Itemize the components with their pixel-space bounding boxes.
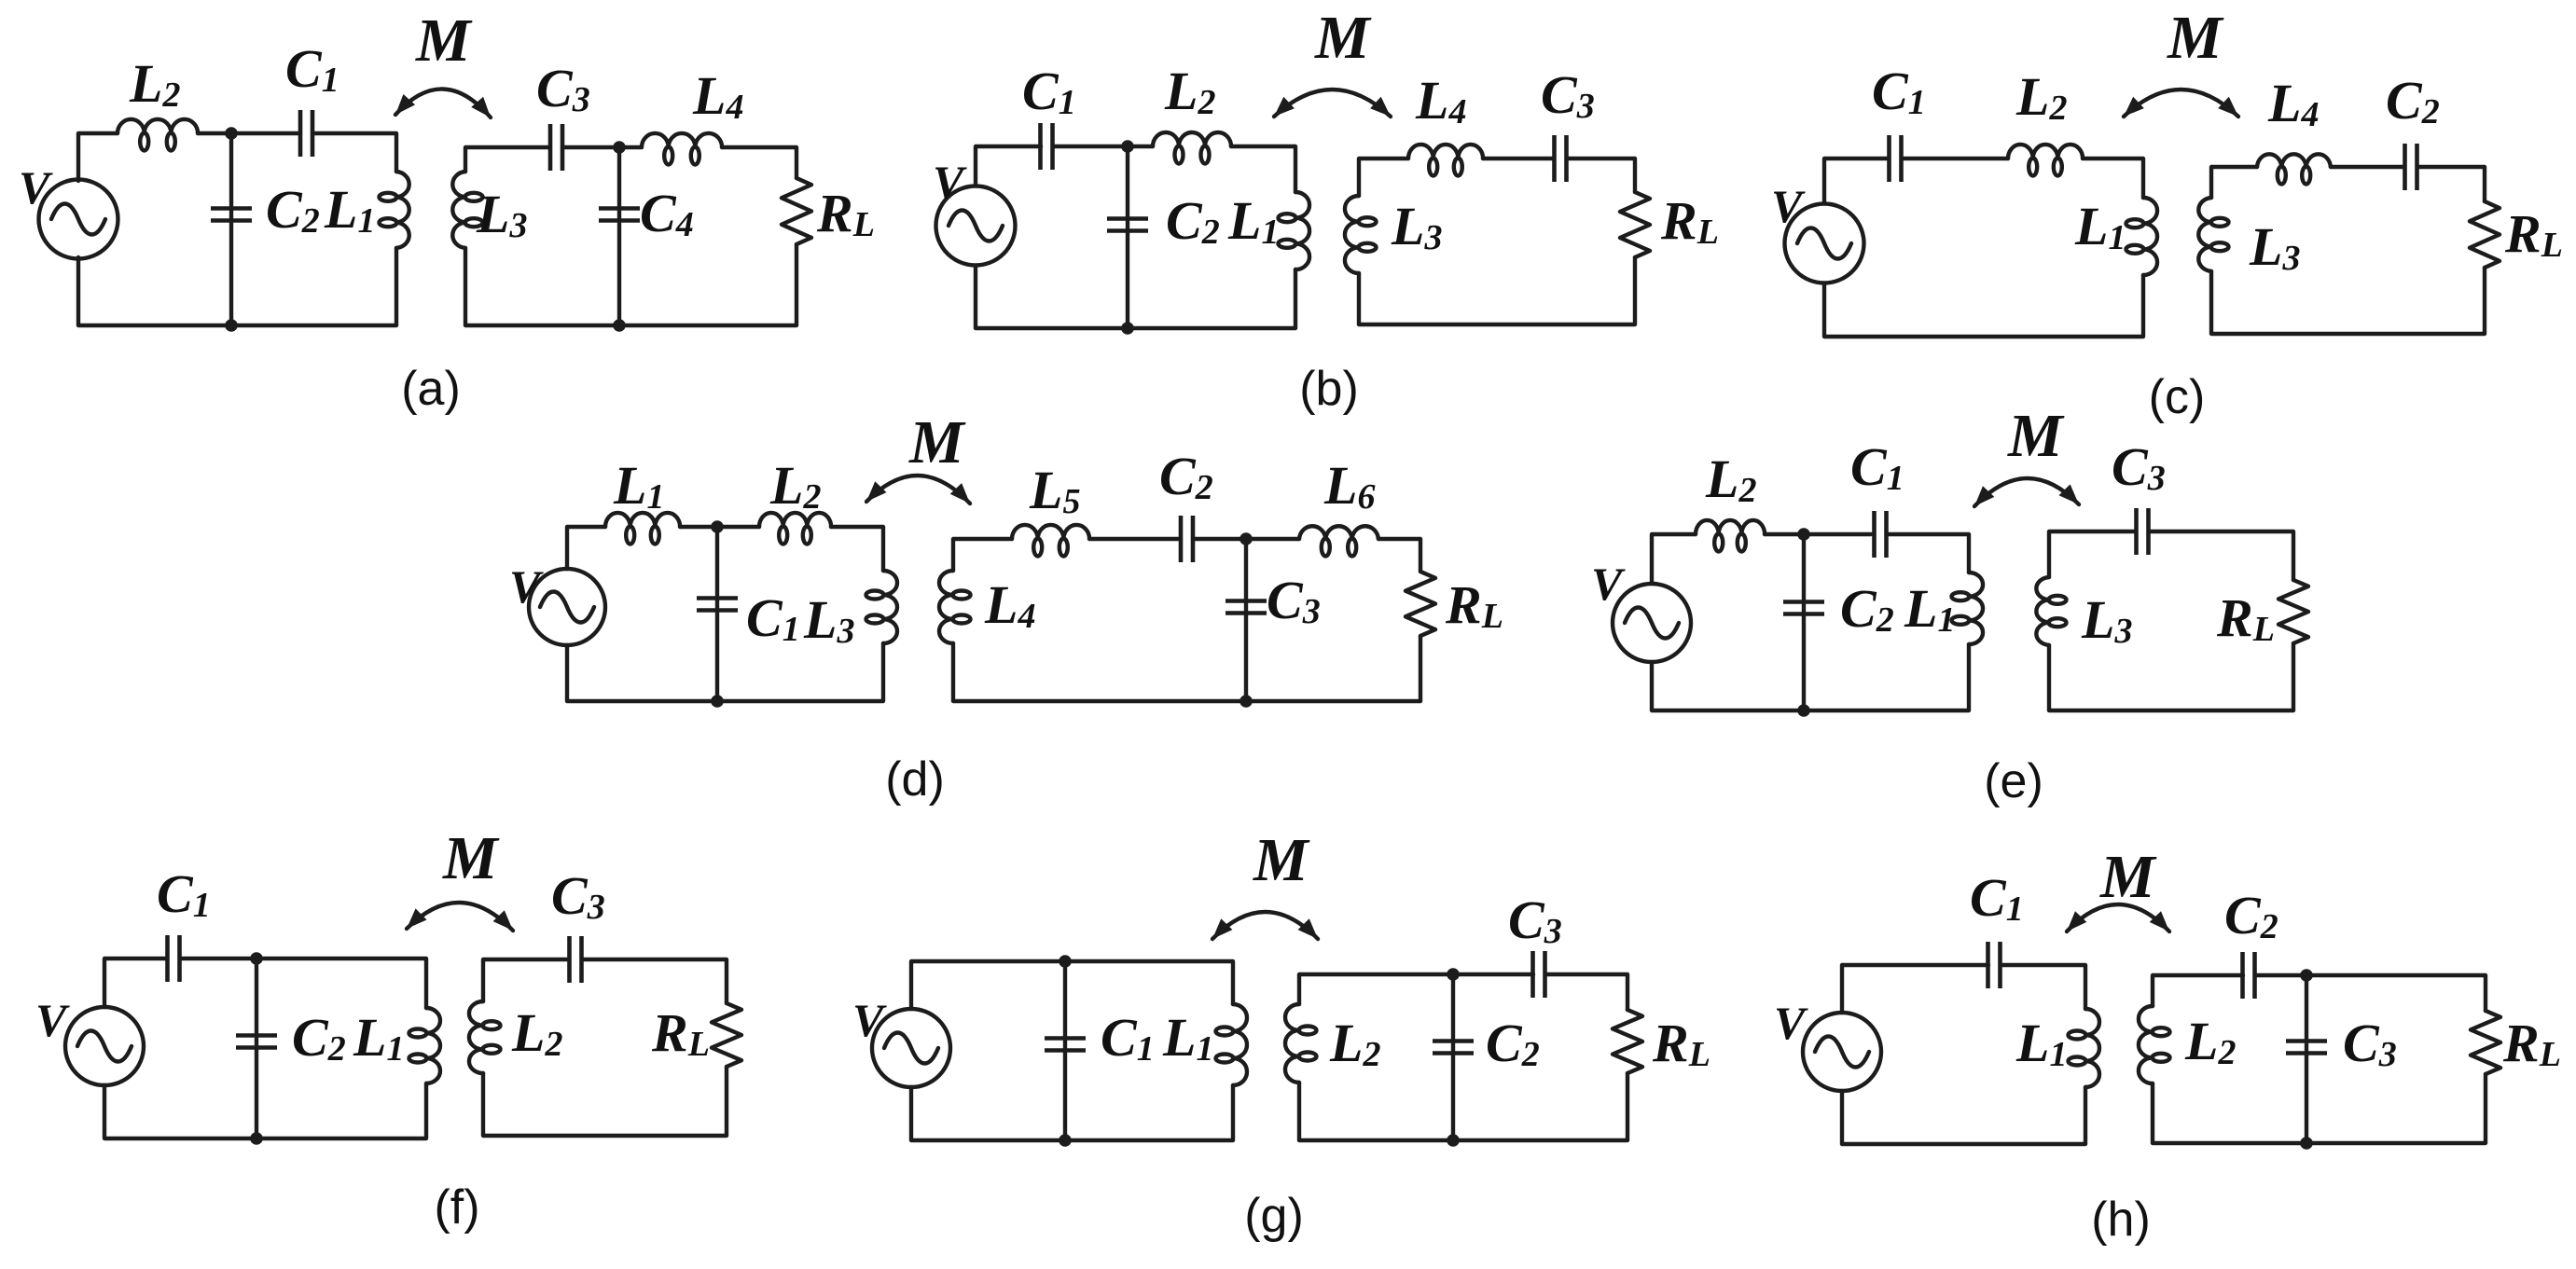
capacitor C1 (e) [1875,511,1887,558]
svg-text:C2: C2 [2224,885,2278,946]
wire (e) bottom loop1 [1652,644,1969,710]
wire (h) C1 to corner [2001,965,2085,1009]
svg-text:L1: L1 [613,455,664,517]
resistor RL (a) [782,178,811,244]
svg-text:C1: C1 [1101,1007,1155,1069]
svg-text:C1: C1 [1022,61,1076,122]
svg-text:M: M [1253,826,1310,894]
capacitor C1 (c) [1890,135,1902,182]
wire (b) C2 branch [1126,146,1129,328]
wire (f) C3 to RL [582,959,727,1003]
node (a) n2 [613,141,626,154]
wire (h) C2 to node2 [2255,975,2486,1011]
wire (a) sec top left [465,147,550,172]
inductor L4 (c) [2257,154,2331,184]
mutual coupling M arrow (f) [401,903,519,936]
mutual coupling M arrow (g) [1207,912,1323,945]
svg-text:M: M [415,7,473,75]
inductor L2 (h) [2139,1006,2170,1083]
inductor L3 (a) [452,172,482,248]
capacitor C3 (f) [570,936,582,983]
AC source V (b) [936,186,1016,266]
AC source V (h) [1803,1013,1881,1091]
capacitor C2 (g) [1433,1041,1474,1054]
node (d) n1 bottom [711,695,724,708]
inductor L1 (g) [1216,1004,1248,1085]
capacitor C2 (b) [1107,219,1148,231]
wire (g) C3 to RL [1545,974,1627,1010]
node (g) n1 bottom [1059,1134,1072,1147]
mutual coupling M arrow (h) [2061,904,2175,937]
svg-text:L2: L2 [769,455,821,517]
svg-text:(d): (d) [885,752,945,807]
wire (g) C1 branch [1063,961,1067,1140]
resistor RL (e) [2278,580,2308,643]
inductor L3 (b) [1345,196,1377,273]
inductor L4 (d) [939,571,971,643]
wire (g) bottom loop2 [1299,1073,1627,1140]
node (g) n2 bottom [1447,1134,1460,1147]
wire (b) L2 to corner [1231,146,1295,192]
resistor RL (g) [1613,1010,1642,1073]
node (g) n2 [1447,968,1460,981]
inductor L2 (a) [118,119,198,151]
wire (d) src top lead [567,527,605,569]
svg-text:M: M [2007,402,2065,470]
node (g) n1 [1059,955,1072,968]
svg-text:C1: C1 [157,863,211,925]
capacitor C1 (a) [300,110,312,157]
svg-text:V: V [35,994,70,1046]
svg-text:L4: L4 [1415,70,1466,131]
inductor L1 (b) [1279,192,1310,269]
AC source V (g) [872,1009,950,1087]
wire (e) C2 branch [1802,534,1806,710]
wire (b) C3 to RL [1567,159,1635,192]
svg-text:L1: L1 [324,179,375,241]
wire (c) L4 to C2 [2331,165,2404,169]
capacitor C1 (h) [1988,942,2001,988]
svg-text:C3: C3 [1541,64,1595,126]
mutual coupling M arrow (d) [861,476,976,509]
svg-text:(a): (a) [401,362,461,416]
svg-text:(c): (c) [2149,370,2206,424]
wire (g) bottom loop1 [911,1085,1233,1140]
capacitor C1 (g) [1045,1039,1086,1051]
svg-text:RL: RL [2504,203,2563,265]
svg-text:L2: L2 [1329,1013,1380,1074]
svg-text:L3: L3 [476,184,527,245]
resistor RL (b) [1620,192,1650,257]
capacitor C1 (f) [168,935,180,982]
inductor L2 (b) [1153,132,1231,164]
wire (g) sec left top [1299,974,1533,1004]
svg-text:L2: L2 [2184,1011,2236,1072]
node (b) n1 [1121,140,1134,153]
resistor RL (c) [2470,201,2500,268]
wire (d) C3 branch [1244,539,1248,701]
wire (d) C1 branch [715,527,719,701]
wire (e) C1 to corner [1887,534,1969,572]
node (f) n1 bottom [250,1132,263,1145]
wire (b) L4 to C3 [1483,157,1554,160]
svg-text:RL: RL [2216,587,2275,649]
wire (f) C1 to node1 [180,957,256,960]
node (f) n1 [250,952,263,965]
capacitor C2 (c) [2405,144,2417,190]
svg-text:C3: C3 [536,58,590,119]
svg-text:L1: L1 [1162,1007,1213,1069]
resistor RL (f) [712,1003,741,1067]
svg-text:RL: RL [1660,190,1719,252]
node (b) n1 bottom [1121,322,1134,335]
svg-text:C3: C3 [551,865,605,927]
inductor L1 (f) [409,1008,441,1083]
capacitor C3 (a) [550,124,562,171]
wire (h) C3 branch [2305,975,2308,1143]
svg-text:L1: L1 [2074,196,2126,257]
svg-text:(b): (b) [1299,362,1359,416]
svg-text:M: M [1314,4,1372,72]
svg-text:M: M [2099,843,2157,911]
node (e) n1 bottom [1797,704,1810,717]
svg-text:C2: C2 [266,179,320,241]
svg-text:L5: L5 [1029,460,1080,521]
svg-text:(f): (f) [434,1180,479,1235]
svg-text:L1: L1 [1904,578,1955,640]
node (h) n2 bottom [2300,1137,2313,1150]
svg-text:V: V [933,156,967,208]
wire (a) L1 to bottom [78,248,396,325]
wire (c) L2 to corner [2083,159,2143,198]
mutual coupling M arrow (c) [2118,90,2244,122]
svg-text:RL: RL [651,1002,710,1064]
wire (d) L2 to corner [831,527,883,571]
wire (b) sec left top [1359,159,1408,196]
svg-text:C1: C1 [1850,436,1904,498]
svg-text:C1: C1 [1970,867,2024,929]
node (h) n2 [2300,969,2313,982]
wire (a) L4 to RL [722,147,796,178]
svg-text:L4: L4 [692,65,743,127]
AC source V (d) [529,569,605,645]
capacitor C1 (b) [1041,123,1053,170]
inductor L2 (f) [469,1001,501,1073]
capacitor C2 (h) [2243,952,2255,999]
svg-text:M: M [2167,4,2224,72]
inductor L4 (a) [642,133,722,165]
wire (a) C2 branch [229,133,233,325]
svg-text:C1: C1 [1872,61,1926,122]
resistor RL (d) [1406,572,1435,636]
wire (e) src top lead [1652,534,1696,584]
svg-text:C2: C2 [1159,446,1213,507]
wire (d) L1 to node1 [680,525,759,529]
wire (e) sec left top [2049,531,2136,577]
wire (e) C3 to RL [2149,531,2293,580]
node (a) n1 bottom [225,319,238,332]
wire (b) bottom loop1 [976,266,1295,328]
wire (d) C2 to node2 [1193,537,1299,541]
svg-text:(e): (e) [1984,754,2043,808]
wire (a) sec left [465,244,796,325]
svg-text:C2: C2 [1840,578,1894,640]
svg-text:C3: C3 [2112,436,2166,498]
svg-text:RL: RL [1445,574,1503,636]
svg-text:M: M [908,408,966,476]
AC source V (c) [1785,204,1864,283]
svg-text:V: V [509,560,544,613]
svg-text:L2: L2 [129,53,180,115]
capacitor C3 (b) [1555,135,1567,182]
wire (d) bottom loop2 [953,636,1420,701]
wire (e) bottom loop2 [2049,643,2293,710]
wire (c) bottom loop1 [1824,275,2143,337]
node (d) n1 [711,520,724,533]
wire (b) src top lead [976,146,1041,186]
svg-text:L3: L3 [2249,216,2300,278]
wire (h) bottom loop2 [2153,1074,2486,1143]
svg-text:C2: C2 [1166,190,1220,252]
capacitor C1 (d) [697,599,738,611]
inductor L2 (e) [1696,520,1765,552]
wire (g) C2 branch [1451,974,1455,1140]
svg-text:L1: L1 [1227,190,1279,252]
svg-text:V: V [852,994,887,1046]
svg-text:C3: C3 [1508,890,1562,951]
svg-text:L4: L4 [984,574,1035,636]
svg-text:(g): (g) [1244,1189,1304,1243]
wire (f) bottom loop1 [104,1083,426,1138]
svg-text:L6: L6 [1323,455,1375,517]
svg-text:L2: L2 [1705,448,1756,510]
wire (a) C3 to node2 [562,145,642,149]
node (a) n2 bottom [613,319,626,332]
wire (f) src top lead [104,959,167,1007]
svg-text:C4: C4 [640,183,694,244]
svg-text:C1: C1 [746,587,800,649]
svg-text:L2: L2 [2015,66,2067,128]
svg-text:M: M [442,824,500,892]
wire (f) C2 branch [255,959,258,1138]
mutual coupling M arrow (a) [390,89,497,122]
svg-text:C3: C3 [2343,1013,2397,1074]
wire (h) bottom loop1 [1842,1087,2085,1144]
svg-text:C3: C3 [1267,570,1321,631]
wire (a) top to node1 [198,131,300,135]
wire (d) L6 to RL [1378,539,1420,572]
inductor L5 (d) [1012,525,1089,557]
wire (e) L2 to node1 [1765,532,1871,536]
svg-text:L3: L3 [1391,196,1442,257]
mutual coupling M arrow (b) [1268,90,1396,122]
svg-text:L2: L2 [1164,61,1215,122]
inductor L1 (a) [380,172,409,248]
svg-text:C1: C1 [285,38,339,100]
node (e) n1 [1797,528,1810,541]
wire (d) sec left top [953,539,1012,571]
svg-text:C2: C2 [292,1007,346,1069]
inductor L3 (c) [2198,198,2228,271]
capacitor C2 (e) [1783,602,1824,614]
wire (h) sec left top [2153,975,2243,1006]
inductor L1 (c) [2126,198,2158,275]
svg-text:L2: L2 [511,1002,562,1064]
resistor RL (h) [2471,1011,2500,1074]
capacitor C3 (e) [2137,508,2149,555]
wire (h) src top lead [1842,965,1988,1013]
inductor L1 (d) [605,513,680,545]
mutual coupling M arrow (e) [1969,478,2084,512]
wire (c) C2 to RL [2417,167,2485,201]
inductor L1 (e) [1952,572,1984,644]
wire (d) bottom loop1 [567,643,883,701]
node (a) n1 [225,127,238,140]
svg-text:V: V [19,161,53,214]
wire (a) C1 to corner [312,133,396,172]
inductor L4 (b) [1408,145,1483,176]
inductor L6 (d) [1299,526,1378,556]
AC source V (a) [39,180,118,259]
capacitor C3 (d) [1226,601,1267,614]
inductor L2 (c) [2008,145,2083,176]
wire (b) bottom loop2 [1359,257,1635,324]
wire (b) C1 to node1 [1053,145,1153,148]
capacitor C2 (f) [236,1036,277,1048]
svg-text:L4: L4 [2267,73,2319,134]
inductor L2 (g) [1285,1004,1317,1083]
svg-text:C2: C2 [2386,70,2440,131]
wire (g) src top lead [911,961,1233,1009]
capacitor C2 (a) [211,209,252,221]
svg-text:(h): (h) [2091,1193,2151,1247]
inductor L1 (h) [2069,1009,2100,1087]
svg-text:L3: L3 [803,589,854,651]
svg-text:L1: L1 [353,1007,404,1069]
wire (c) sec left top [2211,167,2257,198]
wire (c) src top lead [1824,159,1889,203]
capacitor C3 (h) [2286,1041,2327,1054]
wire (c) bottom loop2 [2211,268,2485,334]
wire (a) C4 branch [617,147,621,325]
node (d) n2 bottom [1240,695,1253,708]
node (d) n2 [1240,532,1253,545]
svg-text:RL: RL [2502,1013,2561,1074]
AC source V (e) [1613,584,1691,662]
capacitor C2 (d) [1181,516,1193,562]
svg-text:L3: L3 [2081,589,2132,651]
svg-text:V: V [1591,558,1626,610]
svg-text:RL: RL [816,183,875,244]
svg-text:L1: L1 [2015,1013,2067,1074]
inductor L2 (d) [759,513,831,545]
svg-text:C2: C2 [1486,1013,1540,1074]
wire (c) C1 to L2 [1902,157,2008,160]
wire (a) src top lead [78,133,118,181]
svg-text:RL: RL [1652,1013,1710,1074]
capacitor C4 (a) [599,209,640,221]
wire (d) L5 to C2 [1089,537,1181,541]
wire (f) node1 right [256,959,426,1008]
wire (f) sec left top [483,959,569,1001]
wire (f) bottom loop2 [483,1067,727,1136]
AC source V (f) [65,1007,144,1085]
inductor L3 (d) [866,571,898,643]
svg-text:V: V [1771,180,1806,232]
svg-text:V: V [1774,997,1808,1049]
inductor L3 (e) [2036,577,2066,645]
capacitor C3 (g) [1533,951,1545,998]
